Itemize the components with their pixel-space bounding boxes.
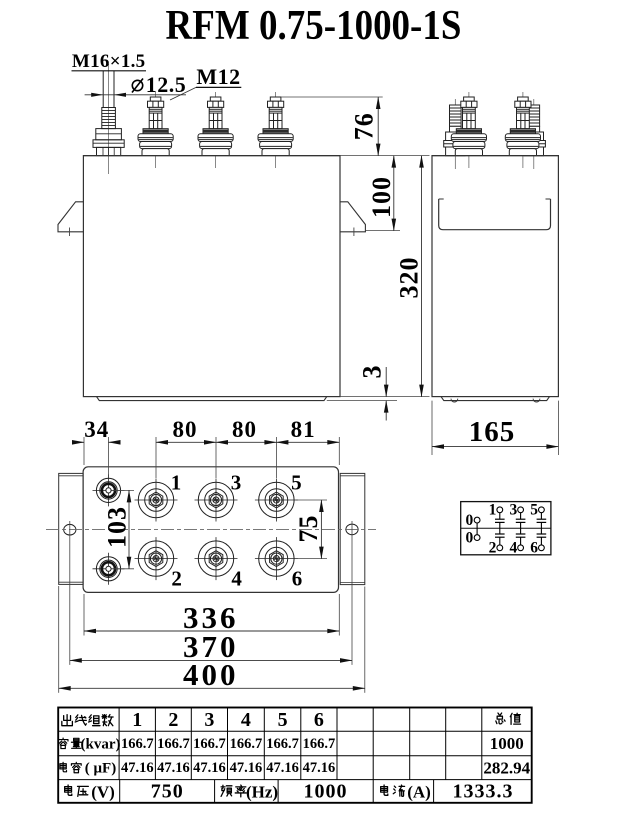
terminal 0 lower xyxy=(474,535,480,541)
svg-text:75: 75 xyxy=(294,515,323,543)
svg-text:166.7: 166.7 xyxy=(230,736,263,752)
svg-text:750: 750 xyxy=(151,781,184,803)
svg-text:2: 2 xyxy=(168,709,178,731)
svg-text:(V): (V) xyxy=(91,783,115,802)
label 2 xyxy=(489,540,497,557)
capacitor C6 xyxy=(537,534,547,537)
svg-text:47.16: 47.16 xyxy=(121,760,154,776)
label 1 xyxy=(489,502,497,519)
svg-text:0: 0 xyxy=(466,530,474,547)
svg-text:4: 4 xyxy=(241,709,251,731)
data table grid xyxy=(58,708,532,803)
wire 3 to capacitor xyxy=(520,513,522,520)
svg-text:76: 76 xyxy=(350,112,379,140)
dimension 81 xyxy=(276,417,339,442)
table row 2: capacity kvar xyxy=(58,734,523,753)
svg-text:1: 1 xyxy=(489,502,497,519)
svg-text:4: 4 xyxy=(509,540,517,557)
node 3 xyxy=(518,507,524,513)
svg-text:166.7: 166.7 xyxy=(121,736,154,752)
wire bus to capacitor C6 xyxy=(540,528,542,534)
svg-text:47.16: 47.16 xyxy=(266,760,299,776)
wire capacitor C6 to node 6 xyxy=(540,537,542,545)
top view main box xyxy=(83,467,338,593)
label terminal 3 xyxy=(231,470,242,494)
label 4 xyxy=(509,540,517,557)
label 6 xyxy=(530,540,538,557)
svg-text:103: 103 xyxy=(102,506,131,548)
svg-text:166.7: 166.7 xyxy=(266,736,299,752)
svg-text:165: 165 xyxy=(469,416,516,448)
top view terminal 6 xyxy=(255,537,298,580)
top view terminal 1 xyxy=(135,479,178,522)
top view right flange xyxy=(340,473,365,584)
svg-text:47.16: 47.16 xyxy=(157,760,190,776)
svg-text:1000: 1000 xyxy=(304,781,348,803)
dimension 165 xyxy=(432,401,558,455)
wire bus to capacitor C4 xyxy=(520,528,522,534)
svg-text:320: 320 xyxy=(395,257,424,299)
svg-text:1: 1 xyxy=(132,709,142,731)
side view stud terminal rear-left xyxy=(444,99,467,169)
node 4 xyxy=(518,545,524,551)
node 6 xyxy=(539,545,545,551)
label 0 lower xyxy=(466,530,474,547)
dimension 3 xyxy=(358,366,387,421)
right mounting bracket xyxy=(340,202,365,236)
dimension 80 second xyxy=(216,417,276,442)
svg-text:( μF): ( μF) xyxy=(85,761,116,777)
svg-text:166.7: 166.7 xyxy=(303,736,336,752)
svg-text:(A): (A) xyxy=(407,783,431,802)
top view terminal 2 xyxy=(135,537,178,580)
svg-text:100: 100 xyxy=(367,176,396,218)
side view bottom lip xyxy=(441,397,550,402)
svg-text:0: 0 xyxy=(466,512,474,529)
svg-text:47.16: 47.16 xyxy=(230,760,263,776)
extension line bracket bottom xyxy=(365,230,400,232)
side view capacitor body xyxy=(432,156,558,397)
capacitor C2 xyxy=(495,534,505,537)
extension line bushing top xyxy=(281,96,383,98)
svg-text:6: 6 xyxy=(292,566,303,590)
dimension 34 xyxy=(72,417,121,442)
extension line body top right xyxy=(340,155,430,157)
title RFM 0.75-1000-1S xyxy=(166,2,462,49)
label terminal 2 xyxy=(171,566,182,590)
front view bottom lip xyxy=(97,397,398,401)
top view centerline xyxy=(46,529,376,531)
dimension 320 xyxy=(395,156,424,397)
svg-text:3: 3 xyxy=(204,709,214,731)
dimension 75 xyxy=(294,500,327,559)
side view insulator bushing front-right xyxy=(505,92,540,168)
top view terminal 5 xyxy=(255,479,298,522)
side body top edge redraw xyxy=(432,155,558,157)
wire capacitor C2 to node 2 xyxy=(499,537,501,545)
top view left flange xyxy=(59,473,83,584)
dimension 100 xyxy=(367,156,396,231)
svg-text:400: 400 xyxy=(183,657,239,692)
capacitor C5 xyxy=(537,519,547,522)
capacitor C4 xyxy=(516,534,526,537)
svg-text:166.7: 166.7 xyxy=(193,736,226,752)
svg-text:6: 6 xyxy=(314,709,324,731)
svg-text:(Hz): (Hz) xyxy=(246,783,278,802)
label M12 xyxy=(170,64,241,100)
node 1 xyxy=(497,507,503,513)
svg-text:1000: 1000 xyxy=(490,734,524,753)
svg-text:6: 6 xyxy=(530,540,538,557)
bottom dimension extension lines xyxy=(59,521,365,693)
insulator bushing 1 front view xyxy=(138,92,173,168)
dimension 80 first xyxy=(156,417,216,442)
extension line body bottom right xyxy=(340,396,430,398)
diameter 12.5 dimension xyxy=(85,72,187,97)
dimension 400 xyxy=(59,657,365,692)
table row 1: header xyxy=(62,709,521,731)
svg-text:47.16: 47.16 xyxy=(193,760,226,776)
label 3 xyxy=(509,502,517,519)
svg-text:166.7: 166.7 xyxy=(157,736,190,752)
svg-text:1333.3: 1333.3 xyxy=(453,781,514,803)
svg-text:1: 1 xyxy=(171,470,182,494)
side view lifting bracket xyxy=(439,199,551,230)
svg-text:3: 3 xyxy=(358,366,387,379)
svg-text:80: 80 xyxy=(232,417,257,442)
svg-text:M12: M12 xyxy=(196,64,240,89)
svg-text:12.5: 12.5 xyxy=(146,72,187,97)
label terminal 4 xyxy=(231,566,242,590)
svg-text:3: 3 xyxy=(509,502,517,519)
wire capacitor C4 to node 4 xyxy=(520,537,522,545)
svg-text:(kvar): (kvar) xyxy=(81,736,121,752)
top dimension extension lines xyxy=(84,437,339,478)
left mounting bracket xyxy=(58,202,83,236)
table row 3: capacitance uF xyxy=(60,758,531,777)
svg-text:5: 5 xyxy=(278,709,288,731)
label 0 upper xyxy=(466,512,474,529)
M16 stud terminal (0 terminal) front view xyxy=(93,64,124,174)
side view stud terminal rear-right xyxy=(522,99,545,169)
node 2 xyxy=(497,545,503,551)
svg-text:5: 5 xyxy=(530,502,538,519)
svg-text:2: 2 xyxy=(171,566,182,590)
dimension 336 xyxy=(84,600,339,635)
terminal 0 upper xyxy=(474,517,480,523)
table row 4: ratings xyxy=(65,781,514,803)
label terminal 5 xyxy=(291,470,302,494)
svg-text:81: 81 xyxy=(291,417,316,442)
wire bus to capacitor C2 xyxy=(499,528,501,534)
side view insulator bushing front-left xyxy=(451,92,486,168)
svg-text:M16×1.5: M16×1.5 xyxy=(72,51,146,72)
label terminal 6 xyxy=(292,566,303,590)
label 5 xyxy=(530,502,538,519)
svg-text:3: 3 xyxy=(231,470,242,494)
wire capacitor C5 to bus xyxy=(540,522,542,528)
svg-text:47.16: 47.16 xyxy=(303,760,336,776)
wire 0-0 xyxy=(476,523,478,535)
capacitor C1 xyxy=(495,519,505,522)
wire capacitor C1 to bus xyxy=(499,522,501,528)
svg-text:80: 80 xyxy=(173,417,198,442)
wire 5 to capacitor xyxy=(540,513,542,520)
svg-text:282.94: 282.94 xyxy=(483,758,530,777)
top view terminal 3 xyxy=(195,479,238,522)
dimension 76 xyxy=(350,97,379,156)
wire capacitor C3 to bus xyxy=(520,522,522,528)
schematic bus (midline) xyxy=(461,527,551,529)
top view 0 stud terminal upper xyxy=(93,474,125,506)
insulator bushing 2 front view xyxy=(198,92,233,168)
top view terminal 4 xyxy=(195,537,238,580)
svg-text:5: 5 xyxy=(291,470,302,494)
svg-text:34: 34 xyxy=(84,417,109,442)
schematic box xyxy=(461,502,551,555)
label terminal 1 xyxy=(171,470,182,494)
svg-text:4: 4 xyxy=(231,566,242,590)
top view 0 stud terminal lower xyxy=(93,553,125,585)
svg-text:2: 2 xyxy=(489,540,497,557)
dimension 103 xyxy=(102,490,134,568)
wire 1 to capacitor xyxy=(499,513,501,520)
front view capacitor body xyxy=(83,156,340,397)
insulator bushing 3 front view xyxy=(258,92,293,168)
dimension 370 xyxy=(70,629,352,664)
node 5 xyxy=(539,507,545,513)
capacitor C3 xyxy=(516,519,526,522)
label M16x1.5 xyxy=(72,51,147,72)
front body top edge redraw xyxy=(83,155,340,157)
svg-text:RFM 0.75-1000-1S: RFM 0.75-1000-1S xyxy=(166,2,462,49)
